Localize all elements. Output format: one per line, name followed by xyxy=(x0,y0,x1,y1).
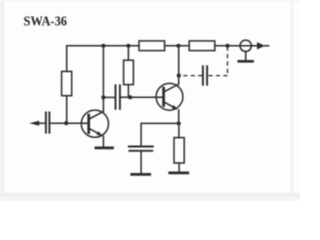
output arrow xyxy=(257,42,265,49)
node at C2 right / R3 xyxy=(128,95,132,99)
ground below R6 xyxy=(170,172,188,175)
capacitor C4 (emitter bypass) xyxy=(129,146,153,148)
ground below C4 xyxy=(132,173,150,176)
wire rail between R2 and R5 xyxy=(165,45,190,47)
node at C2 left xyxy=(101,95,105,99)
resistor R2 (horizontal, on rail) xyxy=(139,41,165,51)
wire through jack to arrow xyxy=(240,45,257,47)
transistor Q1 xyxy=(81,110,108,137)
node on rail at Q2 collector xyxy=(176,44,180,48)
node at Q2 emitter xyxy=(177,121,181,125)
ground below output jack xyxy=(239,60,253,63)
dashed wire C3 left plate to Q2 collector node xyxy=(179,75,202,77)
resistor R3 (Q2 base bias) xyxy=(124,60,134,84)
dashed wire to C3 right plate xyxy=(208,75,228,77)
wire Q1 collector up to rail xyxy=(102,46,104,112)
transistor Q2 xyxy=(156,83,183,110)
wire C4 to ground xyxy=(140,151,142,174)
wire R6 to ground xyxy=(178,163,180,173)
ground at Q1 emitter xyxy=(96,147,113,150)
node on rail at R3 xyxy=(126,44,130,48)
wire emitter node to R6 xyxy=(178,123,180,137)
wire jack to ground xyxy=(245,51,247,61)
dashed wire from output node down xyxy=(227,47,229,76)
wire C1 to Q1 base xyxy=(50,122,88,124)
node on rail at Q1 collector xyxy=(101,44,105,48)
node at Q2 collector / C3 xyxy=(177,74,181,78)
wire rail to R3 xyxy=(127,46,129,60)
wire emitter node left to C4 xyxy=(141,123,179,146)
Q2 emitter arrowhead xyxy=(172,105,178,109)
capacitor C1 (input coupling) xyxy=(45,113,47,133)
wire R3 bottom to base line xyxy=(127,85,129,98)
wire top rail left segment xyxy=(67,46,139,72)
wire rail from R5 to output jack xyxy=(215,45,241,47)
output jack circle xyxy=(240,40,251,51)
wire input to capacitor C1 xyxy=(33,122,45,124)
resistor R1 (left vertical) xyxy=(62,71,72,95)
node at Q1 base xyxy=(64,121,68,125)
wire after output arrow xyxy=(265,45,269,47)
wire Q1 emitter to ground xyxy=(102,136,104,147)
Q1 emitter arrowhead xyxy=(97,131,103,135)
wire Q2 emitter down to node xyxy=(178,110,180,123)
node on rail at output xyxy=(225,44,229,48)
wire C2 to Q2 base xyxy=(120,96,163,98)
capacitor C2 (interstage coupling) xyxy=(115,85,117,109)
wire R1 bottom to base node xyxy=(66,96,68,124)
wire collector node to C2 xyxy=(103,96,115,98)
svg-text:SWA-36: SWA-36 xyxy=(24,14,68,29)
input arrow xyxy=(29,121,39,126)
resistor R6 (Q2 emitter) xyxy=(174,138,184,163)
wire Q2 collector up to rail xyxy=(178,46,180,84)
capacitor C3 (dashed feedback, plates) xyxy=(202,65,204,85)
resistor R5 (horizontal, on rail) xyxy=(189,41,215,51)
